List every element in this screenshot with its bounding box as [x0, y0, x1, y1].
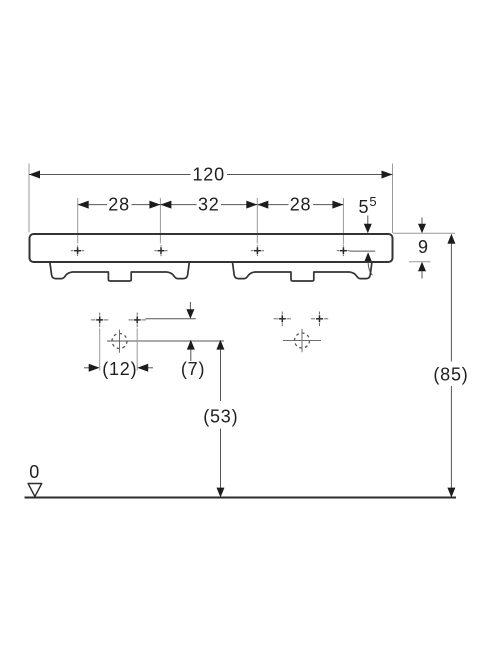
svg-text:9: 9 — [418, 237, 429, 257]
dimension 28 left — [78, 194, 161, 214]
extension line tap hole 2 — [159, 198, 161, 244]
datum zero symbol — [28, 462, 42, 497]
basin underside right — [233, 263, 372, 282]
dimension 28 right — [257, 194, 343, 214]
dimension (7) — [181, 340, 205, 379]
dimension (85) — [433, 234, 468, 498]
basin body outline — [30, 234, 393, 262]
tap hole 4 — [337, 245, 350, 256]
dimension (12) — [84, 329, 153, 380]
arrow onto fixing hole line — [186, 302, 194, 319]
svg-text:(12): (12) — [102, 359, 137, 379]
basin underside left — [50, 263, 189, 282]
dimension 9 right side — [393, 218, 455, 279]
drain outlet right dashed circle — [283, 329, 321, 352]
svg-text:0: 0 — [29, 462, 40, 482]
tap hole 2 — [154, 245, 167, 256]
fixing hole right 1 — [274, 312, 291, 327]
dimension 120 — [29, 164, 393, 184]
svg-text:32: 32 — [198, 194, 220, 214]
svg-text:28: 28 — [290, 194, 312, 214]
extension line tap hole 4 — [342, 198, 344, 245]
svg-text:(85): (85) — [433, 365, 468, 385]
dimension 5.5 label — [350, 194, 378, 275]
fixing hole left 2 — [129, 313, 146, 328]
svg-text:28: 28 — [108, 194, 130, 214]
svg-text:120: 120 — [192, 164, 224, 184]
fixing hole left 1 — [91, 313, 108, 328]
tap hole 3 — [251, 245, 264, 256]
extension line tap hole 3 — [256, 198, 258, 244]
svg-text:(7): (7) — [181, 359, 205, 379]
drain outlet left dashed circle — [107, 330, 224, 353]
tap hole 1 — [71, 245, 84, 256]
extension line right of 120 — [392, 164, 394, 234]
extension line tap hole 1 — [77, 198, 79, 244]
svg-text:(53): (53) — [203, 407, 238, 427]
floor baseline — [25, 497, 457, 499]
dimension (53) — [203, 340, 238, 498]
fixing hole right 2 — [311, 312, 328, 327]
fixing hole leader line — [146, 318, 196, 320]
dimension 32 — [160, 194, 257, 214]
extension line left of 120 — [28, 164, 30, 233]
